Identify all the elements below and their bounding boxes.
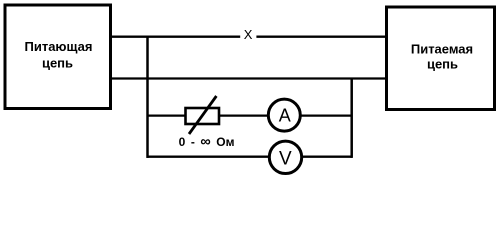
wire: lower conductor between boxes: [110, 77, 387, 79]
wire: branch 2 left lead to voltmeter: [147, 156, 270, 158]
wire: left vertical drop (from top conductor): [146, 36, 149, 158]
voltmeter U2: [269, 141, 301, 173]
wire: branch 2 lead voltmeter to right vertical: [302, 156, 352, 158]
svg-text:A: A: [279, 106, 291, 126]
powered circuit box (Питаемая цепь): [387, 7, 495, 110]
svg-text:0 - ∞ Ом: 0 - ∞ Ом: [179, 134, 235, 150]
svg-text:цепь: цепь: [42, 55, 73, 70]
svg-text:X: X: [244, 27, 253, 42]
wire: top conductor, right segment: [256, 36, 387, 38]
wire: branch 1 left lead to rheostat: [147, 114, 186, 116]
wire: right vertical drop (from lower conductor): [350, 78, 353, 158]
svg-text:Питаемая: Питаемая: [411, 41, 473, 56]
rheostat arrow (diagonal stroke): [189, 96, 216, 134]
ammeter U1: [268, 99, 300, 131]
wire: top conductor, left segment: [110, 36, 240, 38]
svg-text:цепь: цепь: [427, 57, 458, 72]
supply circuit box (Питающая цепь): [5, 5, 111, 109]
svg-text:V: V: [279, 148, 292, 169]
rheostat body (variable resistor): [186, 108, 220, 124]
wire: branch 1 lead ammeter to right vertical: [301, 114, 352, 116]
svg-text:Питающая: Питающая: [25, 39, 93, 54]
wire: branch 1 lead rheostat to ammeter: [219, 114, 268, 116]
